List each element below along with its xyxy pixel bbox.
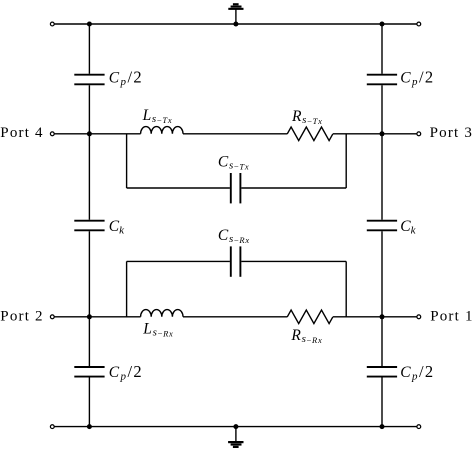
svg-text:Port 4: Port 4 [0,125,43,141]
svg-text:Port 1: Port 1 [430,308,473,324]
svg-text:Port 3: Port 3 [430,125,473,141]
svg-text:Port 2: Port 2 [0,308,43,324]
